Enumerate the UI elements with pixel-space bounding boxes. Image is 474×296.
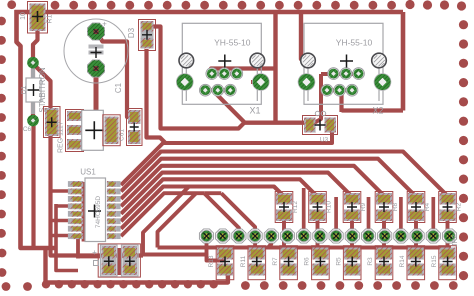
svg-text:R2: R2 (455, 202, 462, 211)
svg-text:R15: R15 (431, 255, 438, 267)
svg-text:R11: R11 (240, 255, 247, 267)
svg-text:US1: US1 (80, 168, 96, 177)
svg-text:74HC595D: 74HC595D (95, 196, 102, 228)
svg-text:D1: D1 (21, 85, 28, 94)
svg-text:JP2: JP2 (452, 235, 459, 247)
svg-text:R13: R13 (208, 255, 215, 267)
svg-text:R10: R10 (325, 201, 332, 213)
svg-text:U3: U3 (320, 137, 329, 144)
svg-text:STABITRON: STABITRON (38, 67, 47, 112)
svg-text:+: + (102, 20, 107, 29)
svg-text:R7: R7 (272, 257, 279, 266)
svg-text:R8: R8 (392, 202, 399, 211)
svg-text:R6: R6 (304, 257, 311, 266)
svg-text:REG 1117: REG 1117 (58, 121, 65, 153)
svg-text:X1: X1 (249, 106, 260, 116)
svg-text:YH-55-10: YH-55-10 (214, 38, 251, 48)
svg-text:C1: C1 (114, 82, 123, 93)
svg-text:R4: R4 (424, 202, 431, 211)
svg-text:YH-55-10: YH-55-10 (336, 38, 373, 48)
svg-text:C61: C61 (119, 129, 126, 141)
svg-text:R14: R14 (399, 255, 406, 267)
svg-text:R9: R9 (360, 202, 367, 211)
svg-text:R3: R3 (367, 257, 374, 266)
svg-text:10: 10 (20, 12, 27, 20)
svg-text:+: + (92, 248, 97, 257)
svg-text:R12: R12 (292, 201, 299, 213)
svg-text:R5: R5 (335, 257, 342, 266)
svg-text:X2: X2 (372, 106, 383, 116)
svg-text:C6: C6 (23, 126, 32, 133)
svg-text:R1: R1 (47, 14, 54, 23)
svg-text:D3: D3 (127, 27, 136, 38)
